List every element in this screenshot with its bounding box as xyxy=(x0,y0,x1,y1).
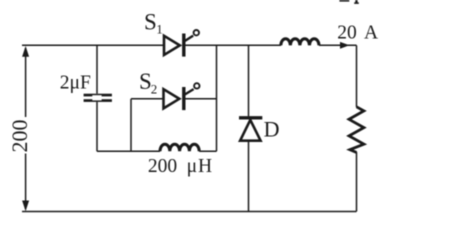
svg-text:200: 200 xyxy=(7,120,32,153)
svg-text:20: 20 xyxy=(337,23,357,44)
wire top rail inductor L1 to right corner xyxy=(319,44,357,46)
svg-text:200: 200 xyxy=(148,156,177,177)
capacitor C plates xyxy=(84,94,112,102)
wire S2 cathode horizontal xyxy=(186,98,217,100)
wire top rail junction A to diode branch xyxy=(217,44,249,46)
wire top rail S1 cathode to junction A xyxy=(186,44,217,46)
dimension line 200 V lower segment xyxy=(25,154,27,210)
resistor R (load) xyxy=(349,107,364,153)
label L1 (cut off at top edge) xyxy=(339,0,358,4)
wire diode branch lower xyxy=(248,141,250,212)
wire capacitor branch upper xyxy=(96,45,98,93)
wire top rail left (source to S1 anode) xyxy=(22,44,164,46)
inductor L1 (top right) xyxy=(281,39,319,46)
current arrowhead 20 A xyxy=(340,42,350,49)
svg-text:S: S xyxy=(144,9,157,34)
thyristor S2 cathode bar xyxy=(182,87,185,110)
diode D triangle xyxy=(240,120,261,141)
svg-text:1: 1 xyxy=(156,22,163,37)
dimension line 200 V upper segment xyxy=(25,48,27,117)
wire S2 anode branch vertical xyxy=(130,99,132,152)
dimension arrowhead up (at top rail) xyxy=(22,46,29,57)
wire right branch upper (corner to resistor) xyxy=(356,45,358,107)
thyristor S1 cathode bar xyxy=(182,34,185,57)
svg-text:A: A xyxy=(364,23,378,44)
wire inner loop bottom left (cap to L2) xyxy=(97,150,160,152)
diode D cathode bar xyxy=(239,116,262,119)
thyristor S2 gate circle xyxy=(194,83,199,88)
svg-text:2: 2 xyxy=(151,81,158,96)
wire diode branch upper xyxy=(248,45,250,116)
thyristor S2 triangle xyxy=(164,89,180,108)
wire top rail diode branch to inductor L1 xyxy=(249,44,282,46)
thyristor S1 gate lever xyxy=(184,36,193,42)
svg-text:2μF: 2μF xyxy=(60,73,91,94)
thyristor S1 gate circle xyxy=(194,30,199,35)
capacitor C plate notch xyxy=(92,95,101,100)
thyristor S2 gate lever xyxy=(184,89,194,95)
wire S2 anode horizontal xyxy=(131,98,164,100)
thyristor S1 triangle xyxy=(164,36,180,55)
svg-text:D: D xyxy=(264,117,280,142)
svg-text:μH: μH xyxy=(187,156,213,177)
wire capacitor branch lower xyxy=(96,102,98,151)
wire right branch lower (resistor to bottom rail) xyxy=(356,152,358,212)
inductor L2 (200 uH) xyxy=(160,144,199,151)
node A vertical wire (cathode bus x=216.5) xyxy=(216,45,218,151)
wire bottom rail xyxy=(22,211,357,213)
dimension arrowhead down (at bottom rail) xyxy=(22,201,29,212)
wire inner loop bottom right (L2 to cathode bus) xyxy=(199,150,216,152)
